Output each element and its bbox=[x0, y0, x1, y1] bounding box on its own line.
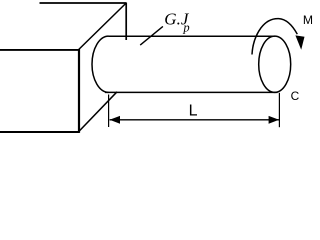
svg-text:C: C bbox=[291, 89, 300, 103]
svg-text:M: M bbox=[303, 13, 313, 27]
svg-text:L: L bbox=[189, 103, 198, 120]
svg-text:G.Jp: G.Jp bbox=[164, 10, 190, 35]
